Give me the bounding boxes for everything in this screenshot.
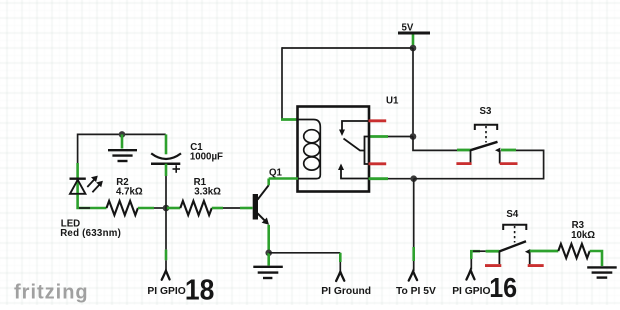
S3 actuator dashed stem <box>485 126 487 143</box>
relay NO contact arm <box>338 164 369 179</box>
C1 curved plate <box>151 153 181 159</box>
wire LED cathode vertical <box>77 134 79 196</box>
svg-text:Red (633nm): Red (633nm) <box>60 228 121 239</box>
junction relay upper common node <box>410 133 417 140</box>
wire Q1 collector to relay coil pin 2 <box>269 179 298 186</box>
S3 movable bar <box>471 142 498 150</box>
pin header PI GPIO 16 <box>466 270 474 279</box>
wire GPIO16 header to S4 <box>471 251 499 269</box>
S3 actuator bracket <box>475 125 497 130</box>
svg-text:S4: S4 <box>506 209 518 220</box>
label 18 <box>185 274 214 306</box>
svg-text:PI GPIO: PI GPIO <box>452 286 490 297</box>
wire down to relay coil pin 1 <box>281 47 283 119</box>
pin header PI GPIO 18 <box>162 271 170 280</box>
label PI GPIO (16) <box>452 286 490 297</box>
relay pin lower NC stub (unconnected) <box>369 162 387 165</box>
S4 pin stub left (unconnected) <box>485 264 501 267</box>
label R1 <box>194 177 207 188</box>
power symbol 5V <box>398 32 430 35</box>
junction R1 R2 C1 node <box>163 205 170 212</box>
S3 right contact arrowhead <box>495 148 500 153</box>
label 16 <box>489 272 517 304</box>
LED light arrow 2 <box>92 185 99 192</box>
resistor R2 <box>107 201 138 215</box>
label LED <box>61 219 80 230</box>
wire junction to R1 <box>166 207 180 210</box>
wire junction down to GPIO18 header <box>165 208 167 270</box>
relay U1 <box>298 107 370 192</box>
relay pin NC stub (unconnected) <box>369 119 387 122</box>
Q1 emitter lead <box>258 213 266 221</box>
svg-text:16: 16 <box>489 272 517 304</box>
svg-text:1000µF: 1000µF <box>190 152 223 163</box>
label Red (633nm) <box>60 228 121 239</box>
wire S4 right pin to R3 <box>530 250 559 253</box>
wire top-left horizontal (LED cathode to ground/C1) <box>78 133 166 135</box>
resistor R3 <box>558 244 589 258</box>
Q1 base bar <box>253 194 258 220</box>
switch S3 <box>456 125 517 164</box>
LED light arrow 1 <box>87 180 94 187</box>
wire relay lower common pin stub <box>369 177 389 180</box>
wire junction to S3 right loop <box>414 150 544 178</box>
relay NC contact arm <box>339 121 369 136</box>
S3 right contact post <box>499 150 501 164</box>
label R2 <box>116 177 128 188</box>
wire C1 bottom to junction <box>165 164 168 208</box>
C1 plus sign <box>173 165 181 173</box>
Q1 collector lead <box>258 185 269 200</box>
label PI GPIO (18) <box>147 286 185 297</box>
LED D1 <box>70 176 103 194</box>
S3 pin stub right (unconnected) <box>500 162 518 165</box>
LED triangle <box>70 180 85 194</box>
label 10k ohm <box>571 230 595 241</box>
S3 left contact post <box>470 150 472 164</box>
label S4 <box>506 209 518 220</box>
label 5V <box>402 23 414 34</box>
C1 straight plate <box>151 162 180 165</box>
junction 5V node <box>410 45 417 52</box>
relay movable contact <box>344 139 365 151</box>
S4 left contact post <box>498 251 500 264</box>
S4 right contact arrowhead <box>525 249 530 254</box>
relay coil <box>299 120 321 179</box>
wire LED anode <box>78 195 107 208</box>
ground (top left) <box>108 150 137 161</box>
svg-text:U1: U1 <box>386 96 399 107</box>
label Q1 <box>269 167 283 178</box>
wire down to PI 5V header <box>413 179 415 271</box>
junction to-pi-5v node <box>410 175 417 182</box>
svg-text:3.3kΩ: 3.3kΩ <box>194 187 221 198</box>
label R3 <box>572 220 585 231</box>
resistor R1 <box>180 201 212 215</box>
svg-text:10kΩ: 10kΩ <box>571 230 595 241</box>
switch S4 <box>485 225 544 266</box>
wire rail corner to switch S3 <box>413 137 457 151</box>
svg-text:To PI 5V: To PI 5V <box>396 286 436 297</box>
wire R1 to Q1 base <box>212 207 253 210</box>
transistor Q1 <box>253 185 269 225</box>
svg-text:PI Ground: PI Ground <box>321 286 371 297</box>
wire R2 to junction <box>138 207 166 210</box>
ground (right) <box>587 267 617 277</box>
label 1000uF <box>190 152 223 163</box>
junction emitter ground node <box>265 250 272 257</box>
pin header PI Ground <box>336 272 344 281</box>
relay common bracket <box>365 137 370 165</box>
svg-text:fritzing: fritzing <box>14 282 89 304</box>
wire emitter junction to PI Ground header <box>269 253 341 272</box>
label S3 <box>480 106 492 117</box>
S4 movable bar <box>499 241 526 251</box>
S3 pin stub left (unconnected) <box>456 162 471 165</box>
S4 actuator dashed stem <box>514 226 516 243</box>
S4 pin stub right (unconnected) <box>528 264 544 267</box>
wire 5V rail vertical <box>412 48 414 137</box>
LED cathode bar <box>70 177 86 179</box>
S4 right contact post <box>529 251 531 264</box>
Q1 emitter arrowhead <box>262 218 269 225</box>
wire relay upper common to rail <box>388 136 413 138</box>
S4 actuator bracket <box>503 225 526 230</box>
wire 5V stub <box>412 35 415 49</box>
label 3.3k ohm <box>194 187 221 198</box>
label PI Ground <box>321 286 371 297</box>
svg-text:5V: 5V <box>402 23 414 34</box>
svg-text:PI GPIO: PI GPIO <box>147 286 185 297</box>
svg-text:4.7kΩ: 4.7kΩ <box>116 187 143 198</box>
wire S3 right pin stub <box>501 149 516 152</box>
wire ground stub <box>121 134 124 148</box>
svg-text:S3: S3 <box>480 106 492 117</box>
label C1 <box>190 142 203 153</box>
wire relay coil pin 1 stub <box>281 118 298 121</box>
ground (emitter) <box>253 267 282 278</box>
capacitor C1 <box>151 153 181 172</box>
label U1 <box>386 96 399 107</box>
wire Q1 emitter down <box>267 225 270 253</box>
wire relay lower common to junction <box>388 178 414 180</box>
wire 5V rail top horizontal <box>282 47 413 49</box>
fritzing watermark <box>14 282 89 304</box>
svg-text:18: 18 <box>185 274 214 305</box>
wire C1 top (from top-left corner) <box>165 134 168 154</box>
label 4.7k ohm <box>116 187 143 198</box>
junction top ground node <box>119 131 126 138</box>
label To PI 5V <box>396 286 436 297</box>
wire emitter junction to ground <box>267 253 270 266</box>
wire R3 to ground <box>590 251 602 266</box>
svg-text:Q1: Q1 <box>269 167 283 178</box>
pin header To PI 5V <box>409 271 417 280</box>
wire S3 left pin stub <box>457 149 471 152</box>
relay body <box>298 107 370 192</box>
wire relay upper common pin stub <box>369 135 389 138</box>
